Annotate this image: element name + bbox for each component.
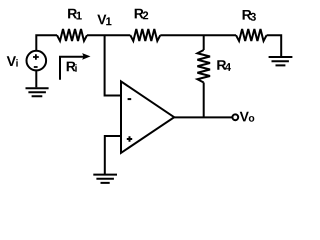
label V1: [97, 15, 111, 26]
source minus sign: [34, 66, 38, 68]
wire R4 bottom to output node: [203, 83, 205, 118]
resistor R4: [197, 50, 210, 83]
arrow Ri: [60, 57, 84, 80]
resistor R2: [130, 29, 160, 41]
label Ri: [67, 62, 77, 72]
wire source bottom to left ground: [35, 70, 37, 87]
ground op-amp: [93, 175, 117, 183]
ground right: [269, 57, 293, 65]
label R3: [243, 10, 256, 21]
resistor R1: [57, 29, 87, 41]
op-amp U1: [121, 81, 174, 152]
op-amp plus sign: [127, 136, 132, 141]
output wire to Vo terminal: [174, 116, 232, 118]
terminal Vo circle: [232, 114, 238, 120]
wire from source top to R1: [36, 35, 57, 51]
label R1: [68, 9, 82, 20]
voltage source Vi: [27, 51, 47, 71]
node V1 wire down to op-amp inverting input: [105, 35, 122, 95]
wire junction to resistor R4 top: [203, 35, 205, 50]
ground left: [26, 88, 49, 96]
label R4: [217, 60, 231, 71]
resistor R3: [236, 29, 267, 41]
source plus sign: [33, 54, 39, 60]
wire R1 to R2: [87, 34, 130, 36]
wire R2 to R3: [160, 34, 236, 36]
wire R3 to right ground: [267, 35, 282, 56]
op-amp minus sign: [128, 98, 132, 100]
wire op-amp noninverting input to ground: [105, 136, 122, 174]
arrowhead Ri: [82, 53, 90, 60]
label Vo: [240, 112, 255, 122]
label R2: [135, 9, 149, 19]
label Vi: [7, 56, 18, 66]
